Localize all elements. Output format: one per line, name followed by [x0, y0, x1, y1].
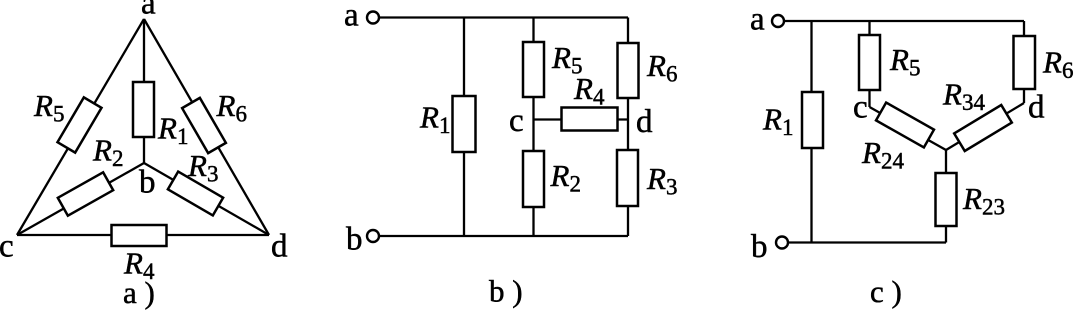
wire c-d (fig b)	[534, 118, 629, 120]
resistor R5 (fig a)	[57, 97, 101, 152]
wire c-d (fig a, triangle bottom side)	[17, 234, 269, 236]
wire R6 branch a-d (fig c)	[1023, 21, 1025, 103]
resistor R34 (fig c)	[954, 105, 1012, 151]
wire junction-bottom (fig c)	[945, 150, 947, 243]
svg-text:c: c	[509, 103, 524, 139]
svg-text:b: b	[346, 222, 363, 258]
wire top rail (fig b)	[379, 16, 628, 18]
svg-text:a ): a )	[123, 275, 155, 310]
svg-text:d: d	[636, 104, 653, 140]
resistor R23 (fig c)	[936, 173, 957, 226]
resistor R1 (fig a)	[133, 82, 154, 137]
resistor R6 (fig b)	[618, 43, 639, 98]
svg-text:a: a	[344, 0, 359, 34]
wire bottom rail (fig c)	[788, 241, 946, 243]
svg-text:b ): b )	[489, 274, 523, 309]
terminal b (fig b)	[367, 230, 379, 242]
resistor R2 (fig b)	[523, 151, 544, 207]
resistor R3 (fig b)	[617, 150, 638, 206]
svg-text:a: a	[750, 2, 765, 38]
wire c-junction (fig c)	[870, 107, 947, 150]
wire top rail (fig c)	[784, 20, 1024, 22]
resistor R5 (fig c)	[859, 35, 880, 90]
wire c-b (fig a)	[17, 163, 144, 235]
terminal a (fig b)	[367, 12, 379, 24]
resistor R1 (fig b)	[453, 96, 476, 152]
wire b-d (fig a)	[144, 163, 269, 235]
svg-text:d: d	[1028, 90, 1045, 126]
resistor R3 (fig a)	[168, 172, 223, 216]
resistor R4 (fig a)	[112, 225, 167, 246]
wire a-c (fig a, triangle left side)	[17, 19, 144, 235]
svg-text:c ): c )	[870, 274, 902, 309]
resistor R6 (fig a)	[182, 98, 226, 153]
wire bottom rail (fig b)	[379, 235, 628, 237]
wire R6-R3 branch (fig b)	[627, 18, 629, 237]
resistor R1 (fig c)	[802, 92, 823, 148]
svg-text:b: b	[139, 165, 156, 201]
svg-text:b: b	[751, 229, 768, 265]
terminal a (fig c)	[772, 15, 784, 27]
wire R5-R2 branch (fig b)	[532, 18, 534, 237]
resistor R5 (fig b)	[523, 42, 544, 97]
wire d-junction (fig c)	[946, 103, 1024, 150]
wire a-d (fig a, triangle right side)	[144, 19, 269, 235]
svg-text:c: c	[0, 229, 14, 265]
wire R1 branch (fig b)	[463, 18, 465, 237]
terminal b (fig c)	[776, 237, 788, 249]
resistor R24 (fig c)	[876, 103, 934, 148]
svg-text:d: d	[271, 229, 288, 265]
svg-text:a: a	[141, 0, 156, 22]
svg-text:c: c	[853, 90, 868, 126]
resistor R2 (fig a)	[58, 172, 113, 215]
wire R1 branch (fig c)	[810, 21, 812, 243]
wire R5 branch a-c (fig c)	[868, 21, 870, 107]
wire a-b (fig a, vertical center)	[143, 19, 145, 163]
resistor R6 (fig c)	[1014, 36, 1036, 89]
resistor R4 (fig b)	[562, 108, 618, 131]
